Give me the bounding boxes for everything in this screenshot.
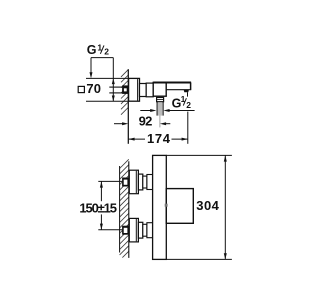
svg-text:G: G [87,43,97,57]
svg-text:92: 92 [139,113,153,128]
svg-text:70: 70 [86,81,101,96]
water drip tick under aerator [187,92,189,96]
dimension 304: dimension line with arrows [224,155,226,259]
connector A [140,84,147,97]
bottom union: pipe [143,224,147,236]
leader bracket for G 1/2 (top) [91,57,113,59]
svg-text:174: 174 [147,131,171,146]
outlet pipe (down, G1/2) [158,102,162,115]
label square-70 [78,86,84,92]
bottom union: connector into body [147,223,153,238]
svg-text:2: 2 [104,47,109,57]
top union: in-wall elbow [122,178,129,187]
handle cube (protruding square) [166,189,193,224]
G 1/2 outlet callout arrows [140,110,151,112]
wall line (top view, continues down as extension line for 92/174) [127,69,129,144]
valve body [153,82,166,96]
wall right line (bottom view) [128,161,130,258]
connector B [146,83,153,97]
dimension 70: extension lines [86,77,128,79]
spout [153,82,191,84]
top union: pipe [143,176,147,188]
bottom union: in-wall elbow [122,226,129,235]
wall hatching (top view) [121,70,128,115]
dimension 304: extension lines [166,154,232,156]
supply pipe stub behind wall [109,87,122,93]
aerator at spout tip [184,90,189,93]
dimension 174 [128,138,188,140]
bottom union: nut [138,222,142,238]
extension line at spout outlet for 174 [187,112,189,144]
wall hatching (bottom view) [120,159,129,257]
svg-text:2: 2 [186,100,191,110]
svg-text:150±15: 150±15 [79,201,117,216]
in-wall elbow fitting (black square) [122,85,128,94]
dimension 70: dimension line with arrows [112,58,114,102]
mixer body (tall bar, side view) [153,155,167,259]
outlet nut under body [157,97,164,101]
dimension 150±15: extension lines [98,180,122,182]
top union: wall rosette [129,170,138,194]
bottom union: wall rosette [129,218,138,242]
wall left line (bottom view) [119,166,121,253]
dimension 150±15: dimension line with arrows [100,181,102,229]
svg-text:304: 304 [196,198,219,213]
top union: connector into body [147,175,153,190]
top union: nut [138,174,142,190]
safety button marker on body edge [165,204,168,207]
outlet pipe center extension line [159,116,161,128]
escutcheon (side view) [129,78,140,101]
dimension 92 [114,123,123,125]
